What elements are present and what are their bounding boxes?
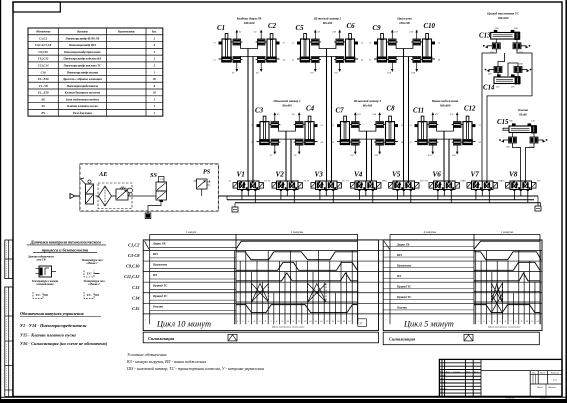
- cylinder С3: [263, 116, 266, 122]
- connecting pipe С11С12 A: [437, 125, 454, 132]
- svg-text:Е1: Е1: [238, 32, 241, 34]
- svg-text:V8: V8: [509, 171, 518, 179]
- pipe C16 rod side to V8: [513, 143, 521, 181]
- svg-text:V4: V4: [354, 171, 363, 179]
- wire V8 supply: [520, 191, 522, 196]
- soft start valve SS: [156, 182, 167, 191]
- svg-text:С3-С8: С3-С8: [128, 253, 141, 258]
- svg-text:Привод ТС: Привод ТС: [152, 284, 168, 288]
- diagram 1 trace row5 baseline: [236, 290, 358, 292]
- svg-text:21: 21: [369, 43, 371, 45]
- connecting pipe С11С12 B: [437, 139, 454, 142]
- wire PS to bus: [201, 189, 203, 196]
- svg-text:22: 22: [213, 60, 215, 62]
- throttle-check valve C03: [513, 43, 521, 49]
- wire V3 exhaust A: [319, 191, 321, 200]
- sheet outer edge right: [565, 0, 567, 403]
- wire V5 exhaust A: [396, 191, 398, 200]
- svg-text:1 минута: 1 минута: [501, 230, 514, 234]
- diagram 1 step tick lines: [234, 250, 236, 324]
- wire V4 supply: [365, 191, 367, 196]
- V4 port studs: [358, 190, 360, 192]
- pipe C1C2 to V1: [247, 49, 249, 182]
- svg-text:С1,С2: С1,С2: [39, 36, 47, 40]
- svg-text:Шаги включенных механизмов: Шаги включенных механизмов: [487, 326, 521, 329]
- svg-text:100х400: 100х400: [244, 21, 255, 25]
- wire SS exhaust: [148, 202, 161, 213]
- pilot solenoid У13: [467, 183, 472, 189]
- svg-text:С11,С12: С11,С12: [124, 274, 140, 279]
- cylinder С11: [421, 116, 424, 122]
- pipe C5C6 to V3: [326, 49, 328, 182]
- svg-text:Двери ГВ: Двери ГВ: [152, 241, 165, 245]
- connecting pipe С5С6 B: [319, 57, 336, 60]
- svg-text:22: 22: [251, 142, 253, 144]
- diagram 1 crossing block B rows 5-6: [308, 283, 326, 302]
- svg-text:в Ванне 2: в Ванне 2: [88, 283, 100, 286]
- svg-text:Е1...Е30: Е1...Е30: [37, 77, 49, 81]
- throttle-check valve Е18: [413, 39, 421, 45]
- svg-text:газовыделения: газовыделения: [36, 283, 54, 286]
- diagram 1 trace row4: [236, 273, 358, 281]
- svg-text:V7: V7: [471, 171, 480, 179]
- diagram 2 trace row2: [474, 252, 541, 260]
- supply bus line P: [75, 195, 538, 197]
- pipe C3C4 to V2: [285, 131, 287, 181]
- wire V7 exhaust A: [475, 191, 477, 200]
- svg-text:24: 24: [361, 59, 363, 62]
- svg-text:Опалка: Опалка: [397, 306, 407, 310]
- V5 port studs: [396, 190, 398, 192]
- silencer right drop: [538, 196, 541, 206]
- wire V8 exhaust B: [527, 191, 529, 203]
- svg-text:С1,С2: С1,С2: [128, 243, 140, 248]
- throttle-check valve Е6: [295, 122, 303, 128]
- svg-text:С9,С10: С9,С10: [126, 264, 140, 269]
- throttle-check valve Е14: [376, 122, 384, 128]
- svg-text:С2: С2: [268, 23, 277, 30]
- svg-text:С1: С1: [217, 25, 225, 32]
- throttle-check valve Е9: [312, 39, 320, 45]
- sensor gas symbol: [39, 266, 52, 277]
- pilot solenoid У4: [298, 183, 303, 189]
- connecting pipe С3С4 A: [279, 125, 296, 132]
- svg-text:Сигнализация: Сигнализация: [389, 337, 416, 342]
- pilot solenoid У6: [337, 183, 342, 189]
- pipe C14 branch: [498, 53, 505, 67]
- pressure switch PS: [197, 179, 208, 189]
- svg-text:Ванна поджеления: Ванна поджеления: [431, 99, 459, 103]
- svg-text:1: 1: [145, 319, 146, 322]
- 5/2 distributor V8: [510, 181, 532, 190]
- diagram 1 trace row2: [236, 252, 358, 260]
- svg-text:22: 22: [332, 142, 334, 144]
- svg-text:22: 22: [409, 142, 411, 144]
- svg-text:С9,С10: С9,С10: [39, 50, 49, 54]
- svg-text:С13: С13: [479, 33, 491, 40]
- svg-text:21: 21: [292, 43, 294, 45]
- svg-text:Пневмоцилиндр Ф100 ГВ: Пневмоцилиндр Ф100 ГВ: [65, 36, 100, 40]
- wire V5 supply: [403, 191, 405, 196]
- svg-text:Е1...Е30: Е1...Е30: [37, 91, 49, 95]
- svg-text:21: 21: [348, 321, 350, 323]
- wire V7 supply: [481, 191, 483, 196]
- svg-text:Копировал: Копировал: [505, 398, 515, 400]
- svg-text:С11: С11: [413, 108, 424, 115]
- svg-text:160х600: 160х600: [440, 104, 451, 108]
- svg-text:1: 1: [478, 321, 479, 323]
- svg-text:Шлюзовой затвор 2: Шлюзовой затвор 2: [313, 16, 342, 21]
- svg-text:1 минут: 1 минут: [186, 230, 197, 234]
- filter unit dashed box: [98, 183, 132, 209]
- diagram 2 trace row3: [474, 262, 540, 270]
- svg-text:С4: С4: [306, 106, 315, 113]
- diagram 2 trace row5 baseline: [474, 290, 540, 292]
- svg-text:Прижимы: Прижимы: [396, 17, 412, 21]
- svg-text:Наименование: Наименование: [117, 31, 136, 34]
- svg-text:Лист 1: Лист 1: [536, 387, 543, 389]
- wire V2 exhaust B: [293, 191, 295, 203]
- exhaust bus line R1: [227, 199, 534, 201]
- pipe C9C10 to V5: [403, 49, 405, 182]
- svg-text:Обозначения катушек управления: Обозначения катушек управления: [20, 311, 85, 316]
- svg-text:С3,С4,С7,С8: С3,С4,С7,С8: [35, 43, 52, 47]
- 5/2 distributor V7: [472, 181, 494, 190]
- V3 port studs: [319, 190, 321, 192]
- svg-text:23: 23: [283, 43, 285, 45]
- connecting pipe С5С6 A: [319, 42, 336, 49]
- V2 port studs: [280, 190, 282, 192]
- svg-text:22: 22: [369, 60, 371, 62]
- svg-text:С8: С8: [387, 106, 396, 113]
- svg-text:С12: С12: [464, 106, 476, 113]
- svg-text:Клапан плавного пуска: Клапан плавного пуска: [66, 104, 98, 108]
- svg-text:С6: С6: [347, 23, 356, 30]
- svg-text:24: 24: [321, 141, 323, 144]
- air prep dashed enclosure: [80, 164, 218, 211]
- cylinder С12: [466, 116, 469, 122]
- throttle-check valve Е7: [271, 139, 279, 145]
- svg-text:Входные двери ГВ: Входные двери ГВ: [236, 17, 262, 21]
- svg-text:Условные обозначения:: Условные обозначения:: [127, 352, 168, 357]
- throttle-check valve Е2: [257, 39, 265, 45]
- svg-text:С15: С15: [132, 306, 140, 311]
- svg-text:Пневмоцилиндр прижимов: Пневмоцилиндр прижимов: [63, 50, 101, 54]
- svg-text:Т/С: Т/С: [87, 293, 93, 297]
- throttle-check valve Е19: [389, 57, 397, 63]
- svg-text:SS: SS: [150, 172, 157, 179]
- svg-text:SS: SS: [41, 104, 45, 108]
- pilot solenoid У9: [389, 183, 394, 189]
- cylinder С2: [270, 34, 273, 40]
- svg-text:1: 1: [385, 319, 386, 322]
- svg-text:V2: V2: [276, 171, 285, 179]
- cycle diagram 1 header bracket: [150, 233, 358, 235]
- pipe C16 cap side to V8: [526, 143, 535, 181]
- svg-text:PS: PS: [203, 169, 211, 176]
- svg-text:С16: С16: [41, 70, 47, 74]
- wire V6 supply: [443, 191, 445, 196]
- svg-text:100х100: 100х100: [399, 21, 410, 25]
- throttle-check valve Е5: [271, 122, 279, 128]
- svg-text:ШЗ: ШЗ: [396, 253, 402, 257]
- title block right section: [529, 371, 531, 397]
- svg-text:АЕ: АЕ: [40, 97, 45, 101]
- svg-text:ШЗ: ШЗ: [152, 252, 158, 256]
- svg-text:Цикл 10 минут: Цикл 10 минут: [156, 319, 211, 328]
- svg-text:24: 24: [401, 141, 403, 144]
- svg-text:30: 30: [152, 77, 157, 81]
- svg-text:Двери ГВ: Двери ГВ: [396, 242, 409, 246]
- throttle-check valve Е8: [295, 139, 303, 145]
- V7 port studs: [475, 190, 477, 192]
- throttle-check valve Е16: [376, 139, 384, 145]
- svg-text:С11,С12: С11,С12: [38, 57, 49, 61]
- pilot solenoid У5: [311, 183, 316, 189]
- diagram 1 trace row1: [145, 241, 150, 249]
- pipe C13 rod side to V7: [482, 49, 496, 181]
- svg-text:80х400: 80х400: [323, 21, 333, 25]
- cylinder C13: [491, 33, 520, 40]
- svg-text:С7: С7: [336, 108, 345, 115]
- svg-text:Привод наклонения ТС: Привод наклонения ТС: [486, 12, 520, 16]
- 5/2 distributor V6: [434, 181, 456, 190]
- pilot solenoid У16: [532, 183, 537, 189]
- pilot solenoid У2: [259, 183, 264, 189]
- svg-text:Шлюзовой затвор 1: Шлюзовой затвор 1: [272, 98, 301, 103]
- cylinder С8: [389, 116, 392, 122]
- throttle-check valve Е15: [352, 139, 360, 145]
- signal row diagram 1: [143, 332, 378, 343]
- wire V2 exhaust A: [280, 191, 282, 200]
- filter: [99, 186, 112, 206]
- left margin column: [5, 240, 13, 279]
- left margin rotated captions: [5, 243, 7, 276]
- diagram 1 trace row3: [236, 262, 357, 270]
- wire V6 exhaust B: [450, 191, 452, 203]
- silencer right: [535, 206, 541, 211]
- pilot solenoid У14: [493, 183, 498, 189]
- wire V2 supply: [286, 191, 288, 196]
- pilot solenoid У1: [233, 183, 238, 189]
- svg-text:Утв.: Утв.: [440, 392, 444, 394]
- svg-text:Подп.: Подп.: [465, 371, 471, 374]
- wire V4 exhaust A: [358, 191, 360, 200]
- svg-text:Привод ТС: Привод ТС: [152, 294, 168, 298]
- wire V1 exhaust B: [254, 191, 256, 203]
- title block frame: [439, 359, 562, 396]
- svg-text:Датчики контроля технологическ: Датчики контроля технологического: [30, 240, 101, 245]
- connecting pipe С1С2 A: [241, 42, 258, 49]
- throttle-check valve C07: [494, 67, 502, 73]
- svg-text:С9: С9: [373, 25, 382, 32]
- pressure regulator: [116, 189, 128, 200]
- title block left grid: [439, 362, 481, 364]
- svg-text:Масштаб: Масштаб: [550, 372, 559, 375]
- connecting pipe С7С8 B: [359, 139, 376, 142]
- svg-text:Привод ТС: Привод ТС: [396, 295, 412, 299]
- sheet bottom black bar: [0, 399, 567, 403]
- svg-text:21: 21: [409, 125, 411, 127]
- svg-text:С01: С01: [511, 87, 515, 89]
- svg-text:Е11: Е11: [310, 73, 314, 75]
- pilot solenoid У7: [351, 183, 356, 189]
- V1 port studs: [241, 190, 243, 192]
- svg-text:Т.контр.: Т.контр.: [440, 382, 447, 384]
- silencer SS: [145, 213, 151, 219]
- cycle diagram 2 header bracket: [390, 233, 540, 235]
- cylinder С9: [381, 34, 384, 40]
- svg-text:Шаги включенных механизмов: Шаги включенных механизмов: [271, 326, 305, 329]
- pilot solenoid У12: [455, 183, 460, 189]
- diagram 1 trace row6 baseline: [236, 301, 358, 303]
- signal row diagram 2: [383, 332, 539, 345]
- svg-text:4 минуты: 4 минуты: [424, 230, 437, 234]
- svg-text:№ докум.: № докум.: [452, 371, 461, 374]
- svg-text:24: 24: [283, 59, 285, 62]
- svg-text:У16 - Сигнализация (на схеме н: У16 - Сигнализация (на схеме не обозначе…: [20, 341, 108, 346]
- svg-text:Сигнализация: Сигнализация: [148, 336, 175, 341]
- sheet bottom rule: [0, 396, 567, 398]
- cylinder С10: [426, 34, 429, 40]
- svg-text:У1: У1: [229, 181, 232, 183]
- diagram 1 crossing block A rows 5-6: [252, 283, 269, 302]
- throttle-check valve Е13: [352, 122, 360, 128]
- svg-text:Пров.: Пров.: [439, 378, 445, 380]
- svg-text:Листов 1: Листов 1: [547, 387, 556, 389]
- svg-text:23: 23: [479, 125, 481, 127]
- sheet outer edge left: [0, 0, 2, 403]
- wire V5 exhaust B: [410, 191, 412, 203]
- diagram 2 trace row7: [474, 305, 540, 313]
- svg-text:V1...V8: V1...V8: [39, 84, 49, 88]
- svg-text:2 минуты: 2 минуты: [291, 230, 304, 234]
- diagram 1 trace row7: [236, 305, 358, 313]
- svg-text:У15 - Клапан плавного пуска: У15 - Клапан плавного пуска: [20, 332, 77, 337]
- throttle-check valve Е20: [413, 57, 421, 63]
- pilot solenoid У11: [429, 183, 434, 189]
- svg-text:Реле давления: Реле давления: [73, 111, 92, 115]
- svg-text:PS: PS: [41, 111, 45, 115]
- cycle diagram 1 frame: [143, 240, 378, 331]
- throttle-check valve C10: [530, 137, 538, 143]
- wire AE internal: [96, 195, 99, 197]
- throttle-check valve Е23: [429, 139, 437, 145]
- svg-text:Пневмораспределитель: Пневмораспределитель: [66, 84, 99, 88]
- throttle-check valve Е21: [429, 122, 437, 128]
- wire V3 supply: [325, 191, 327, 196]
- svg-text:С14: С14: [132, 295, 140, 300]
- pilot solenoid У15: [506, 183, 511, 189]
- svg-text:Масса: Масса: [539, 373, 545, 375]
- diagram 2 trace row6 baseline: [474, 301, 540, 303]
- svg-text:газа ГВ: газа ГВ: [37, 259, 46, 262]
- throttle-check valve Е17: [389, 39, 397, 45]
- svg-text:11: 11: [531, 321, 533, 323]
- wire V3 exhaust B: [332, 191, 334, 203]
- svg-text:23: 23: [321, 125, 323, 127]
- svg-text:23: 23: [361, 43, 363, 45]
- svg-text:Лист: Лист: [445, 372, 451, 374]
- cycle diagram rows grid: [143, 239, 542, 241]
- svg-text:С15: С15: [497, 119, 509, 126]
- pipe C11C12 to V6: [443, 131, 445, 181]
- svg-text:Прижимы: Прижимы: [396, 263, 411, 267]
- svg-text:Т/С: Т/С: [87, 272, 93, 276]
- wire V8 exhaust A: [513, 191, 515, 200]
- connecting pipe С1С2 B: [241, 57, 258, 60]
- throttle-check valve C09: [509, 137, 517, 143]
- pilot solenoid У10: [415, 183, 420, 189]
- connecting pipe С3С4 B: [279, 139, 296, 142]
- svg-text:22: 22: [292, 60, 294, 62]
- throttle-check valve Е4: [257, 57, 265, 63]
- diagram 2 trace row4: [474, 273, 540, 281]
- svg-text:АЕ: АЕ: [98, 171, 108, 178]
- cylinder С1: [225, 34, 228, 40]
- svg-text:Дроссель с обратн. клапаном: Дроссель с обратн. клапаном: [62, 77, 102, 81]
- 5/2 distributor V3: [316, 181, 338, 190]
- svg-text:С5: С5: [296, 25, 305, 32]
- pipe C7C8 to V4: [366, 131, 368, 181]
- compressed air source: [70, 194, 75, 199]
- svg-text:V1: V1: [237, 171, 245, 179]
- svg-text:Пневмоцилиндр наклона ТС: Пневмоцилиндр наклона ТС: [63, 64, 103, 68]
- svg-text:Н.контр.: Н.контр.: [439, 389, 448, 391]
- pilot solenoid У3: [272, 183, 277, 189]
- svg-text:80х400: 80х400: [363, 104, 373, 108]
- svg-text:V6: V6: [433, 171, 442, 179]
- cylinder C14: [494, 77, 520, 84]
- svg-text:23: 23: [401, 125, 403, 127]
- svg-text:80х400: 80х400: [282, 104, 292, 108]
- svg-text:Пневмоцилиндр опалки: Пневмоцилиндр опалки: [66, 70, 99, 74]
- wire V4 exhaust B: [372, 191, 374, 203]
- top-left title tab: [13, 2, 60, 12]
- 5/2 distributor V1: [238, 181, 260, 190]
- svg-text:Опалка: Опалка: [153, 305, 163, 309]
- throttle-check valve Е22: [453, 122, 461, 128]
- pilot solenoid У8: [377, 183, 382, 189]
- svg-text:Опалка: Опалка: [518, 108, 529, 112]
- svg-text:Пневмоцилиндр подъема ВЛ: Пневмоцилиндр подъема ВЛ: [62, 57, 102, 61]
- parts list table: [28, 28, 163, 116]
- svg-text:30: 30: [152, 91, 157, 95]
- svg-text:V3: V3: [315, 171, 324, 179]
- throttle-check valve Е11: [312, 57, 320, 63]
- svg-text:Дата: Дата: [473, 372, 478, 374]
- svg-text:С13,С14: С13,С14: [38, 64, 49, 68]
- svg-text:Название: Название: [76, 31, 89, 34]
- svg-text:21: 21: [332, 125, 334, 127]
- V8 port studs: [513, 190, 515, 192]
- V6 port studs: [437, 190, 439, 192]
- svg-text:Кол.: Кол.: [151, 31, 157, 34]
- cylinder С6: [349, 34, 352, 40]
- throttle-check valve Е24: [453, 139, 461, 145]
- svg-text:С10: С10: [424, 23, 436, 30]
- diagram 2 step tick lines: [475, 250, 477, 324]
- svg-text:23: 23: [438, 43, 440, 45]
- wire V6 exhaust A: [437, 191, 439, 200]
- pipe C13 cap side loop to V7: [487, 49, 532, 181]
- svg-text:Шлюзовой затвор 3: Шлюзовой затвор 3: [353, 98, 382, 103]
- svg-text:Е21: Е21: [434, 114, 439, 116]
- svg-text:Клапан быстрого выхлопа: Клапан быстрого выхлопа: [64, 91, 101, 95]
- svg-text:С3: С3: [255, 108, 264, 115]
- title block designation cell: [481, 370, 562, 372]
- diagram 2 crossing block rows 5-6: [491, 283, 502, 302]
